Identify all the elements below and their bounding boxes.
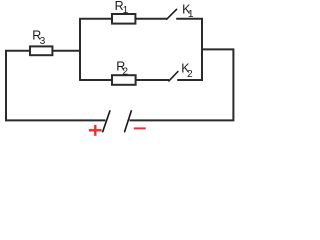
resistor R1 <box>112 14 135 24</box>
label R1 <box>115 0 129 16</box>
battery terminal slash (positive side) <box>103 111 110 132</box>
label R3 <box>32 29 45 47</box>
wire: R3 feed, left vertical, bottom-left segment <box>6 51 105 121</box>
svg-text:2: 2 <box>122 67 128 78</box>
wire: output jog, right vertical, bottom-right segment <box>130 49 234 120</box>
resistor R3 <box>30 46 52 55</box>
wire: junction vertical between branches <box>79 19 81 80</box>
resistor R2 <box>112 75 136 85</box>
label − (negative, red) <box>134 127 146 129</box>
label + (positive, red) <box>89 125 102 136</box>
svg-text:3: 3 <box>40 36 46 47</box>
label R2 <box>116 60 128 78</box>
wire: top branch left segment <box>79 18 167 20</box>
wire: top branch right segment, mid vertical, K2 right segment <box>176 19 202 80</box>
label K2 <box>181 62 193 80</box>
battery terminal slash (negative side) <box>125 111 132 132</box>
label K1 <box>182 2 194 20</box>
switch K2 blade <box>169 72 178 81</box>
wire: R2 branch left segment <box>79 79 169 81</box>
svg-text:2: 2 <box>187 69 193 80</box>
svg-text:1: 1 <box>123 5 129 16</box>
switch K1 blade <box>167 9 177 19</box>
